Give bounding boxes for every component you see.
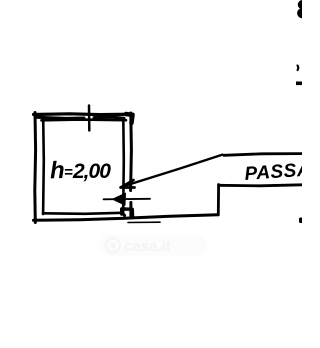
apostrophe mark right edge — [296, 66, 299, 71]
dimension line with solid arrow at opening — [104, 198, 151, 201]
room outer wall right (gap at passage) — [129, 113, 133, 191]
top wall double-stroke overdraw right — [94, 117, 124, 118]
text h=2,00 — [49, 157, 111, 184]
svg-text:=: = — [64, 164, 73, 181]
corridor step vertical wall — [217, 185, 220, 215]
top-right corner ink blob — [126, 114, 133, 123]
room outer wall top — [34, 112, 134, 116]
room outer wall bottom joining corridor wall — [34, 215, 219, 221]
leader open arrowhead — [121, 180, 135, 188]
top wall double-stroke overdraw left — [36, 117, 84, 118]
room outer wall right lower stub — [129, 203, 132, 217]
corridor step top wall to right edge — [219, 185, 303, 186]
svg-text:2,00: 2,00 — [72, 160, 111, 183]
solid arrowhead pointing left — [113, 193, 126, 205]
watermark casa.it — [99, 235, 207, 256]
jamb ink blob — [122, 212, 125, 216]
survey cross tick on top wall — [88, 106, 91, 131]
partial digit 8 cut at top-right edge — [298, 0, 307, 9]
room inner wall top — [42, 118, 127, 121]
room outer wall left — [33, 113, 37, 223]
corridor upper wall line to right edge — [224, 154, 303, 156]
door jamb marker at bottom opening — [122, 209, 133, 217]
ink blob right edge lower — [299, 218, 303, 224]
dash mark right edge — [296, 82, 303, 86]
svg-text:h: h — [49, 157, 65, 184]
leader line from PASS to room opening — [123, 155, 223, 187]
svg-text:casa.it: casa.it — [124, 238, 171, 255]
svg-text:PASSA: PASSA — [244, 159, 302, 185]
room inner wall left — [42, 119, 45, 215]
room inner wall bottom — [43, 213, 122, 214]
room inner wall right — [122, 119, 125, 212]
jamb tail line — [128, 221, 160, 223]
